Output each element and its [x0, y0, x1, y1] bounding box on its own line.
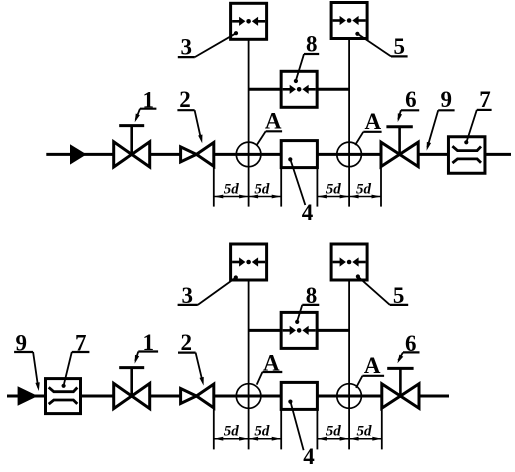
svg-text:4: 4: [302, 200, 314, 225]
svg-text:A: A: [364, 109, 381, 134]
svg-text:5: 5: [394, 34, 406, 59]
svg-text:5d: 5d: [326, 424, 342, 440]
svg-text:5d: 5d: [224, 424, 240, 440]
svg-text:5d: 5d: [356, 424, 372, 440]
svg-text:5d: 5d: [326, 181, 342, 197]
svg-text:3: 3: [181, 35, 193, 60]
svg-text:6: 6: [405, 87, 417, 112]
svg-text:A: A: [265, 109, 282, 134]
svg-text:9: 9: [441, 87, 453, 112]
svg-text:5d: 5d: [254, 181, 270, 197]
svg-text:5d: 5d: [254, 424, 270, 440]
svg-text:A: A: [364, 353, 381, 378]
svg-text:5d: 5d: [356, 181, 372, 197]
svg-text:7: 7: [479, 87, 491, 112]
svg-text:5d: 5d: [224, 181, 240, 197]
svg-text:2: 2: [180, 330, 192, 355]
svg-text:4: 4: [303, 444, 315, 467]
svg-text:2: 2: [179, 87, 191, 112]
svg-text:8: 8: [306, 32, 318, 57]
